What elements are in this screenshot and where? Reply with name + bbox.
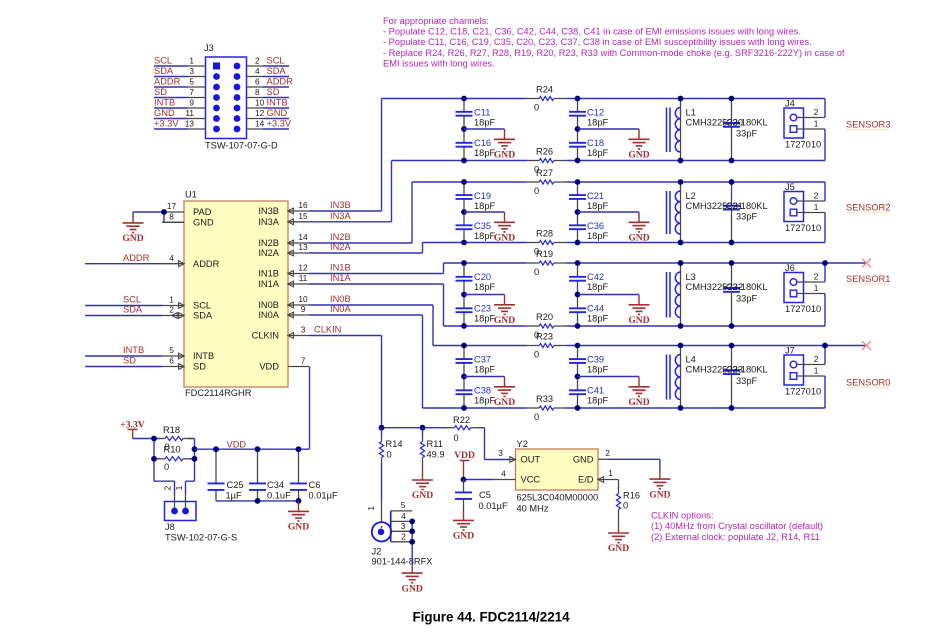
svg-text:For appropriate channels:: For appropriate channels: xyxy=(383,16,489,26)
wire to left ground xyxy=(464,129,505,139)
wire to left ground xyxy=(464,377,505,387)
svg-text:R27: R27 xyxy=(536,168,553,178)
wire to right ground xyxy=(578,129,640,139)
svg-text:FDC2114RGHR: FDC2114RGHR xyxy=(185,388,252,398)
svg-text:18pF: 18pF xyxy=(587,148,609,158)
wire to ground xyxy=(298,501,300,512)
junction dots left stack xyxy=(461,343,467,411)
svg-text:0: 0 xyxy=(534,349,539,359)
Y2 pin 1 E/D wire xyxy=(598,468,619,488)
svg-text:IN1B: IN1B xyxy=(258,269,279,279)
svg-text:6: 6 xyxy=(169,356,174,366)
wire channel 4 bottom rail xyxy=(392,160,826,162)
svg-text:18pF: 18pF xyxy=(587,313,609,323)
junction dots xyxy=(213,446,301,503)
svg-text:18pF: 18pF xyxy=(587,117,609,127)
svg-text:GND: GND xyxy=(494,233,515,244)
net INTB wire xyxy=(85,345,162,356)
junction dots xyxy=(151,436,197,462)
net label SENSOR0 xyxy=(846,377,891,388)
U1 pin 13 (IN2A) stub xyxy=(288,250,309,256)
svg-text:1727010: 1727010 xyxy=(785,304,821,314)
inductor L2 CMH322522-180KL xyxy=(667,182,768,243)
ground xyxy=(494,139,515,149)
svg-text:CLKIN options:: CLKIN options: xyxy=(651,511,714,521)
svg-text:C36: C36 xyxy=(587,221,604,231)
svg-text:0: 0 xyxy=(454,433,459,443)
U1 pin 7 (VDD) stub xyxy=(288,366,309,368)
net IN3A wire xyxy=(309,161,392,222)
svg-text:C38: C38 xyxy=(474,386,491,396)
svg-text:0: 0 xyxy=(623,501,628,511)
net label SENSOR1 xyxy=(846,274,891,285)
svg-text:GND: GND xyxy=(267,108,288,118)
ground xyxy=(629,305,650,315)
ground (R16) xyxy=(608,533,629,543)
svg-text:IN1B: IN1B xyxy=(330,263,351,273)
svg-text:C37: C37 xyxy=(474,355,491,365)
svg-text:OUT: OUT xyxy=(521,455,541,465)
svg-text:- Populate C11, C16, C19, C35,: - Populate C11, C16, C19, C35, C20, C23,… xyxy=(383,37,812,47)
svg-text:0: 0 xyxy=(164,462,169,472)
net IN0A wire xyxy=(309,304,423,408)
U1 pin 14 (IN2B) stub xyxy=(288,240,309,246)
capacitor C32 33pF xyxy=(723,263,758,326)
svg-text:R28: R28 xyxy=(536,229,553,239)
svg-text:GND: GND xyxy=(608,543,629,554)
svg-text:TSW-107-07-G-D: TSW-107-07-G-D xyxy=(205,141,278,151)
wire channel 4 top rail xyxy=(382,98,826,100)
svg-text:IN3A: IN3A xyxy=(330,211,351,221)
svg-text:CMH322522-180KL: CMH322522-180KL xyxy=(686,282,768,292)
svg-text:5: 5 xyxy=(189,77,194,87)
resistor R23 0 ohm xyxy=(527,332,567,360)
svg-text:R18: R18 xyxy=(163,425,180,435)
net SDA wire xyxy=(85,305,162,316)
svg-text:VCC: VCC xyxy=(521,475,541,485)
svg-text:CLKIN: CLKIN xyxy=(314,325,341,335)
svg-text:IN3B: IN3B xyxy=(330,200,351,210)
net SD wire xyxy=(85,356,162,367)
svg-text:CMH322522-180KL: CMH322522-180KL xyxy=(686,118,768,128)
net IN3B wire xyxy=(309,99,382,212)
svg-text:16: 16 xyxy=(298,200,308,210)
svg-text:EMI issues with long wires.: EMI issues with long wires. xyxy=(383,58,495,68)
wire to left ground xyxy=(464,212,505,222)
svg-text:18pF: 18pF xyxy=(474,395,496,405)
U1 pin 15 (IN3A) stub xyxy=(288,219,309,225)
inductor L1 CMH322522-180KL xyxy=(667,99,768,161)
svg-text:2: 2 xyxy=(255,56,260,66)
svg-text:C34: C34 xyxy=(267,480,284,490)
U1 pin 12 (IN1B) stub xyxy=(288,271,309,277)
svg-text:33pF: 33pF xyxy=(736,129,758,139)
ground (U1 PAD) xyxy=(123,223,144,233)
svg-text:INTB: INTB xyxy=(193,351,214,361)
svg-text:J5: J5 xyxy=(785,182,795,192)
svg-text:2: 2 xyxy=(169,305,174,315)
net IN2A wire xyxy=(309,242,423,253)
svg-text:5: 5 xyxy=(401,500,406,510)
svg-text:J6: J6 xyxy=(785,263,795,273)
resistor R10 0 ohm xyxy=(154,444,195,472)
svg-text:18pF: 18pF xyxy=(587,201,609,211)
svg-text:C25: C25 xyxy=(227,480,244,490)
svg-text:0: 0 xyxy=(534,102,539,112)
svg-text:4: 4 xyxy=(255,66,260,76)
svg-text:PAD: PAD xyxy=(193,207,212,217)
svg-text:ADDR: ADDR xyxy=(267,77,294,87)
U1 pin 10 (IN0B) stub xyxy=(288,302,309,308)
svg-text:C12: C12 xyxy=(587,108,604,118)
wire U1 PAD/GND to ground xyxy=(133,212,184,223)
svg-text:U1: U1 xyxy=(185,190,197,200)
U1 pin 17 (PAD) stub xyxy=(162,211,184,213)
svg-text:GND: GND xyxy=(494,315,515,326)
svg-text:IN0A: IN0A xyxy=(258,310,279,320)
svg-text:1: 1 xyxy=(174,485,184,490)
ground xyxy=(629,222,650,232)
svg-text:SCL: SCL xyxy=(193,301,211,311)
svg-text:1: 1 xyxy=(189,56,194,66)
capacitor C39 18pF xyxy=(569,346,609,377)
svg-text:SDA: SDA xyxy=(267,66,287,76)
oscillator Y2 625L3C040M00000 xyxy=(516,439,599,514)
svg-text:GND: GND xyxy=(412,490,433,501)
svg-text:ADDR: ADDR xyxy=(123,253,150,263)
junction dots J2 xyxy=(409,519,415,545)
svg-text:17: 17 xyxy=(167,201,177,211)
capacitor C11 18pF xyxy=(456,99,496,130)
svg-text:2: 2 xyxy=(163,485,173,490)
svg-text:33pF: 33pF xyxy=(736,211,758,221)
svg-text:33pF: 33pF xyxy=(736,376,758,386)
svg-text:5: 5 xyxy=(169,345,174,355)
svg-text:14: 14 xyxy=(255,119,265,129)
capacitor C23 18pF xyxy=(456,295,496,327)
svg-text:R26: R26 xyxy=(536,147,553,157)
svg-text:GND: GND xyxy=(453,531,474,542)
svg-text:SENSOR0: SENSOR0 xyxy=(846,377,890,387)
power symbol +3.3V xyxy=(120,419,144,438)
net SCL wire xyxy=(85,295,162,306)
capacitor C18 18pF xyxy=(569,129,609,161)
svg-text:18pF: 18pF xyxy=(474,148,496,158)
ground (J2) xyxy=(402,573,423,583)
svg-text:(1) 40MHz from Crystal oscilla: (1) 40MHz from Crystal oscillator (defau… xyxy=(651,521,823,531)
capacitor C34 0.1uF xyxy=(249,449,291,501)
svg-text:IN3B: IN3B xyxy=(258,206,279,216)
svg-text:IN1A: IN1A xyxy=(330,273,351,283)
svg-text:ADDR: ADDR xyxy=(193,259,220,269)
svg-text:SCL: SCL xyxy=(123,295,141,305)
svg-text:GND: GND xyxy=(288,522,309,533)
svg-text:C20: C20 xyxy=(474,272,491,282)
J6 pin wires xyxy=(797,263,825,326)
net VDD rail xyxy=(195,367,310,450)
svg-text:L2: L2 xyxy=(686,191,696,201)
svg-text:ADDR: ADDR xyxy=(154,77,181,87)
svg-text:SENSOR3: SENSOR3 xyxy=(846,120,890,130)
svg-text:GND: GND xyxy=(628,233,649,244)
svg-text:CMH322522-180KL: CMH322522-180KL xyxy=(686,365,768,375)
svg-text:33pF: 33pF xyxy=(736,294,758,304)
net VDD at Y2 + pin 4 xyxy=(454,450,515,480)
wire to right ground xyxy=(578,212,640,222)
svg-text:3: 3 xyxy=(189,66,194,76)
svg-text:J4: J4 xyxy=(785,99,795,109)
svg-text:CLKIN: CLKIN xyxy=(252,331,279,341)
wire channel 1 bottom rail xyxy=(423,407,826,409)
svg-text:IN3A: IN3A xyxy=(258,217,279,227)
resistor R27 0 ohm xyxy=(527,168,567,196)
svg-text:C16: C16 xyxy=(474,138,491,148)
svg-text:18pF: 18pF xyxy=(474,201,496,211)
svg-text:4: 4 xyxy=(169,253,174,263)
svg-text:CMH322522-180KL: CMH322522-180KL xyxy=(686,201,768,211)
svg-text:1: 1 xyxy=(814,202,819,212)
svg-text:VDD: VDD xyxy=(454,450,475,461)
svg-text:12: 12 xyxy=(298,263,308,273)
svg-text:C41: C41 xyxy=(587,386,604,396)
wire channel 3 top rail xyxy=(412,181,825,183)
net label SENSOR3 xyxy=(846,120,891,131)
svg-text:0.01µF: 0.01µF xyxy=(309,490,338,500)
wire channel 3 bottom rail xyxy=(423,242,826,244)
wire cap bottoms xyxy=(216,500,299,502)
svg-text:18pF: 18pF xyxy=(587,395,609,405)
svg-text:C21: C21 xyxy=(587,191,604,201)
svg-text:12: 12 xyxy=(255,108,265,118)
svg-text:R16: R16 xyxy=(623,491,640,501)
svg-text:SDA: SDA xyxy=(193,311,213,321)
svg-text:IN2A: IN2A xyxy=(330,242,351,252)
junction dots right stack xyxy=(575,260,581,329)
svg-text:J3: J3 xyxy=(204,43,214,53)
svg-text:+3.3V: +3.3V xyxy=(267,119,292,129)
resistor R28 0 ohm xyxy=(527,229,567,257)
U1 pin 9 (IN0A) stub xyxy=(288,312,309,318)
svg-text:VDD: VDD xyxy=(259,362,279,372)
junction dots left stack xyxy=(461,96,467,164)
svg-text:2: 2 xyxy=(401,532,406,542)
svg-text:R33: R33 xyxy=(536,394,553,404)
svg-text:IN0A: IN0A xyxy=(330,304,351,314)
ground xyxy=(629,387,650,397)
svg-text:3: 3 xyxy=(401,521,406,531)
svg-text:INTB: INTB xyxy=(154,98,175,108)
capacitor C33 33pF xyxy=(723,346,758,409)
svg-text:TSW-102-07-G-S: TSW-102-07-G-S xyxy=(165,533,237,543)
svg-text:GND: GND xyxy=(402,583,423,594)
capacitor C12 18pF xyxy=(569,99,609,130)
resistor R11 49.9 ohm xyxy=(420,428,444,480)
svg-text:L3: L3 xyxy=(686,272,696,282)
svg-text:VDD: VDD xyxy=(227,439,247,449)
svg-text:C18: C18 xyxy=(587,138,604,148)
inductor L4 CMH322522-180KL xyxy=(667,346,768,409)
connector J5 1727010 xyxy=(784,182,821,233)
net CLKIN wire xyxy=(309,325,382,428)
junction PAD/GND xyxy=(161,209,167,215)
svg-text:10: 10 xyxy=(298,294,308,304)
svg-text:18pF: 18pF xyxy=(587,231,609,241)
svg-text:11: 11 xyxy=(299,273,308,283)
capacitor C6 0.01uF xyxy=(290,449,338,501)
junction dots left stack xyxy=(461,179,467,245)
capacitor C25 1uF xyxy=(208,449,244,501)
capacitor C16 18pF xyxy=(456,129,496,161)
capacitor C19 18pF xyxy=(456,182,496,212)
connector J6 1727010 xyxy=(784,263,821,314)
svg-text:GND: GND xyxy=(573,455,594,465)
svg-text:SD: SD xyxy=(267,87,280,97)
svg-text:Y2: Y2 xyxy=(517,439,528,449)
svg-text:GND: GND xyxy=(193,218,214,228)
svg-text:18pF: 18pF xyxy=(587,282,609,292)
ground (Y2) xyxy=(649,479,670,489)
svg-text:18pF: 18pF xyxy=(474,364,496,374)
capacitor C37 18pF xyxy=(456,346,496,377)
capacitor C31 33pF xyxy=(723,182,758,243)
svg-text:IN2A: IN2A xyxy=(258,248,279,258)
wire to right ground xyxy=(578,295,640,305)
svg-text:18pF: 18pF xyxy=(474,313,496,323)
svg-text:14: 14 xyxy=(298,232,308,242)
svg-text:Figure 44. FDC2114/2214: Figure 44. FDC2114/2214 xyxy=(413,610,571,625)
svg-text:IN0B: IN0B xyxy=(330,294,351,304)
U1 pin 16 (IN3B) stub xyxy=(288,208,309,214)
svg-text:R14: R14 xyxy=(386,439,403,449)
ground (VDD caps) xyxy=(288,511,309,521)
capacitor C36 18pF xyxy=(569,212,609,243)
svg-text:(2) External clock: populate J: (2) External clock: populate J2, R14, R1… xyxy=(651,532,820,542)
net ADDR wire xyxy=(85,253,162,264)
svg-text:SD: SD xyxy=(123,356,136,366)
svg-text:- Populate C12, C18, C21, C36,: - Populate C12, C18, C21, C36, C42, C44,… xyxy=(383,27,801,37)
net IN0B wire xyxy=(309,294,433,345)
svg-text:INTB: INTB xyxy=(267,98,288,108)
junction dots right stack xyxy=(575,96,581,164)
wire +3.3V to R18/R10 xyxy=(133,438,154,440)
svg-text:18pF: 18pF xyxy=(474,117,496,127)
svg-text:4: 4 xyxy=(401,511,406,521)
svg-text:GND: GND xyxy=(122,233,143,244)
svg-text:13: 13 xyxy=(298,242,308,252)
svg-text:8: 8 xyxy=(255,87,260,97)
svg-text:0.01µF: 0.01µF xyxy=(479,501,508,511)
U1 pin 2 (SDA) stub xyxy=(162,313,184,319)
svg-text:0.1uF: 0.1uF xyxy=(267,490,291,500)
svg-text:J7: J7 xyxy=(785,346,795,356)
junction dots right stack xyxy=(575,343,581,411)
resistor R26 0 ohm xyxy=(527,147,567,175)
capacitor C30 33pF xyxy=(723,99,758,161)
svg-text:C23: C23 xyxy=(474,304,491,314)
svg-text:1: 1 xyxy=(608,468,613,478)
ground xyxy=(494,305,515,315)
svg-text:10: 10 xyxy=(255,98,265,108)
J2 shield wires xyxy=(411,521,413,573)
svg-text:2: 2 xyxy=(814,191,819,201)
wire channel 1 top rail xyxy=(433,345,867,347)
svg-text:IN1A: IN1A xyxy=(258,279,279,289)
U1 pin 1 (SCL) stub xyxy=(162,303,184,309)
svg-text:+3.3V: +3.3V xyxy=(154,119,179,129)
svg-text:0: 0 xyxy=(387,450,392,460)
capacitor C20 18pF xyxy=(456,263,496,295)
capacitor C5 0.01uF xyxy=(455,480,508,521)
ground xyxy=(494,222,515,232)
svg-text:IN2B: IN2B xyxy=(258,238,279,248)
wire to right ground xyxy=(578,377,640,387)
svg-text:J8: J8 xyxy=(165,522,175,532)
svg-text:9: 9 xyxy=(301,304,306,314)
svg-text:SD: SD xyxy=(154,87,167,97)
no-connect X xyxy=(862,259,871,268)
svg-text:C39: C39 xyxy=(587,355,604,365)
svg-text:IN0B: IN0B xyxy=(258,300,279,310)
capacitor C42 18pF xyxy=(569,263,609,295)
svg-text:SD: SD xyxy=(193,362,206,372)
svg-text:1727010: 1727010 xyxy=(785,140,821,150)
connector J8 TSW-102-07-G-S xyxy=(163,485,238,542)
svg-text:C19: C19 xyxy=(474,191,491,201)
J7 pin wires xyxy=(797,346,825,409)
svg-text:SENSOR1: SENSOR1 xyxy=(846,274,890,284)
svg-text:1727010: 1727010 xyxy=(785,387,821,397)
svg-text:GND: GND xyxy=(494,397,515,408)
resistor R22 0 ohm xyxy=(443,415,483,443)
capacitor C41 18pF xyxy=(569,377,609,409)
svg-text:901-144-8RFX: 901-144-8RFX xyxy=(372,557,433,567)
svg-text:R11: R11 xyxy=(427,439,443,449)
net IN1A wire xyxy=(309,273,444,326)
resistor R24 0 ohm xyxy=(527,85,567,113)
junction dot xyxy=(822,343,828,349)
svg-text:SCL: SCL xyxy=(267,56,285,66)
svg-text:GND: GND xyxy=(628,315,649,326)
junction dots left stack xyxy=(461,260,467,329)
svg-text:4: 4 xyxy=(501,469,506,479)
svg-text:L1: L1 xyxy=(686,108,696,118)
U1 pin 6 (SD) stub xyxy=(162,364,184,370)
Y2 pin 2 GND wire xyxy=(598,448,660,479)
wire CLKIN junction row xyxy=(382,428,510,460)
svg-text:R20: R20 xyxy=(536,312,553,322)
svg-text:R23: R23 xyxy=(536,332,553,342)
connector J2 901-144-8RFX xyxy=(366,500,432,567)
svg-text:- Replace R24, R26, R27, R28,: - Replace R24, R26, R27, R28, R19, R20, … xyxy=(383,48,845,58)
U1 pin 8 (GND) stub xyxy=(162,221,184,223)
svg-text:GND: GND xyxy=(628,150,649,161)
svg-text:R10: R10 xyxy=(164,444,181,454)
svg-text:GND: GND xyxy=(628,397,649,408)
svg-text:49.9: 49.9 xyxy=(427,450,445,460)
svg-text:C6: C6 xyxy=(309,480,321,490)
J4 pin wires xyxy=(797,99,825,161)
U1 pin 11 (IN1A) stub xyxy=(288,281,309,287)
svg-text:GND: GND xyxy=(649,489,670,500)
svg-text:C5: C5 xyxy=(479,490,491,500)
annotation: EMI population note xyxy=(383,16,845,68)
svg-text:9: 9 xyxy=(189,98,194,108)
svg-text:SCL: SCL xyxy=(154,56,172,66)
resistor R16 0 ohm xyxy=(616,488,640,534)
ground xyxy=(629,139,650,149)
svg-text:J2: J2 xyxy=(372,547,382,557)
svg-text:18pF: 18pF xyxy=(474,231,496,241)
